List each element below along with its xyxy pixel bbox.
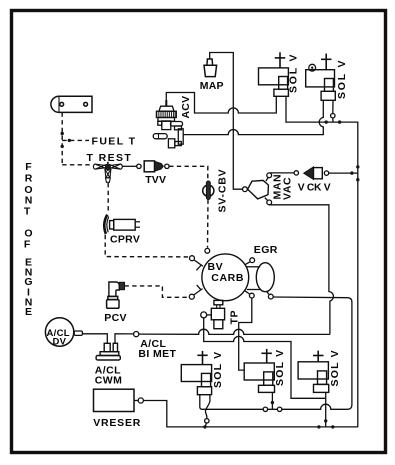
port circle on SOL V2 right tube [332,100,334,113]
svg-text:FUEL T: FUEL T [92,135,137,147]
EGR valve body [256,263,274,292]
check valve VCK V [304,167,314,180]
svg-text:SOL V: SOL V [329,349,341,386]
junction dot [271,401,274,404]
neck lines carb to EGR [247,266,261,268]
svg-text:FRONT OF ENGINE: FRONT OF ENGINE [24,161,33,318]
node FRONT OF ENGINE label [24,161,33,318]
port circle VRESER [138,398,143,403]
carburetor BV CARB [202,254,249,301]
port circle carb bottom-right with stub [245,291,250,294]
wire C : SOL V1 right tube to long right bus [286,96,358,427]
wavy hose from bottom-left solenoid [205,395,210,419]
wire A/CL DV to CWM left post [82,334,107,344]
junction dot [203,425,206,428]
wire P : BI MET to MAN VAC bottom (hops over two verticals) [139,329,330,334]
svg-text:VRESER: VRESER [93,417,141,429]
valve MAN VAC [243,187,248,192]
svg-text:SOL V: SOL V [288,53,300,93]
tee fitting T REST [93,162,122,183]
svg-text:V CK V: V CK V [298,182,331,193]
valve SV-CBV [203,181,214,200]
wire dashed TVV to SV-CBV [169,166,208,181]
solenoid SOL V1 [259,52,289,96]
wire carb bottom-right port down to middle solenoid [239,298,252,370]
vacuum reservoir VRESER [94,389,135,411]
svg-text:EGR: EGR [254,244,278,256]
svg-text:ACV: ACV [180,96,192,119]
port circle carb top [205,248,210,253]
nozzle A/CL DV [74,331,82,335]
wire dashed PCV to carb lower-left port [125,286,189,297]
wire dashed to tee [62,164,93,166]
valve CPRV [104,215,140,234]
wire tee to TVV [122,165,137,167]
solenoid SOL V2 [306,54,336,101]
svg-text:SOL V: SOL V [212,351,224,388]
svg-text:T REST: T REST [87,152,133,164]
wire MAN VAC top port to VCK V [269,172,294,174]
wire A : ACV top to SOL V1 left tube (hop over MAP line) [166,93,276,114]
junction dots on bottom bus [317,425,320,428]
wire SOL V3 tube down to bottom bus [325,392,327,427]
air cleaner diverter valve A/CL DV [45,318,73,346]
svg-text:TVV: TVV [145,174,166,186]
wire CWM right post to BI MET circle [115,334,133,344]
svg-text:CWM: CWM [95,375,122,387]
junction dot [324,419,327,422]
sensor MAP [204,59,217,77]
wire VCK V to long bus [329,172,358,174]
svg-text:SOL V: SOL V [336,59,348,99]
fuel tank capsule fitting [51,96,92,112]
port circle EGR bottom with stub [267,291,269,294]
port circle carb lower-left [189,294,194,299]
wire EGR port to bus1 (vertical P hops over it, bus1 hops over SOL V3 tube) [200,297,352,409]
wire dashed tee down through CPRV [107,183,109,214]
port circle TP left [201,312,207,318]
svg-text:MAP: MAP [200,80,224,92]
port circle carb upper-left [190,256,195,261]
valve PCV [107,282,125,308]
svg-text:DV: DV [53,336,67,347]
heat motor A/CL CWM [96,343,120,360]
port circle carb top-right with stub [245,262,250,265]
junction dot [325,120,328,123]
svg-text:PCV: PCV [104,312,127,324]
port circle MAN VAC top [267,173,272,178]
wire MAN VAC bottom port to line P corner (hop over EGR wire) [269,205,333,335]
port circles on bus1 [263,407,267,411]
wire dashed from capsule down [61,112,63,164]
wire middle solenoid down to bus1 [271,392,273,409]
wire MAP to MAN VAC left port [210,53,243,190]
nipple carb upper-left [194,260,203,266]
wire dashed CPRV to carb upper-left port [105,235,189,257]
svg-text:BI MET: BI MET [138,348,176,360]
wire B : ACV right tab to SOL V2 left tube (hop over MAP line) [183,100,323,134]
svg-text:SOL V: SOL V [274,349,286,386]
svg-text:VAC: VAC [282,177,294,200]
junction dot [338,120,341,123]
valve TVV [144,161,169,172]
wire VRESER to bottom bus [143,401,357,427]
wire Q : TP port down to SOL V3 (hop over TP vertical) [204,318,326,398]
circled-dot symbol [309,64,316,71]
svg-text:CARB: CARB [211,272,244,284]
solenoid SOL V bottom-middle [244,349,274,393]
svg-text:SV-CBV: SV-CBV [217,169,229,213]
port circle [137,164,141,168]
wire dashed branch to FUEL T [62,139,89,141]
throttle positioner TP [211,300,224,328]
junction dots at bus [350,171,353,174]
wire dashed SV-CBV to carb top port [207,200,210,248]
port circle A/CL BI MET [134,332,139,337]
port circle MAN VAC bottom [267,200,272,205]
junction dot [61,132,64,135]
junction dot [61,145,64,148]
svg-text:CPRV: CPRV [110,233,140,245]
solenoid SOL V bottom-right [298,351,329,393]
solenoid SOL V bottom-left [181,351,211,395]
nipple carb lower-left [194,289,203,295]
valve ACV [153,100,183,148]
